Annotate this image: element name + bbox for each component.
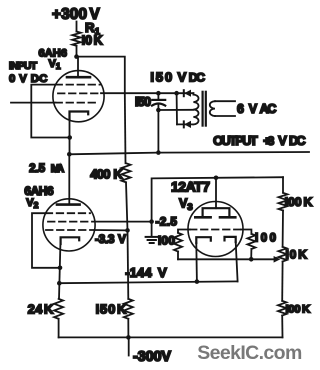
- wire V3 right grid lead: [241, 230, 251, 234]
- svg-text:A-C: A-C: [260, 102, 277, 116]
- svg-text:MA: MA: [51, 163, 65, 175]
- tube V1 grid 1 control (dashed): [56, 102, 98, 104]
- wire secondary leads: [215, 100, 235, 102]
- tube V2 envelope: [43, 199, 95, 251]
- tube V3 envelope: [188, 202, 243, 257]
- svg-text:D-C: D-C: [289, 133, 306, 148]
- wire lower 100K to bottom rail: [281, 316, 283, 338]
- wire 400K bottom to V2 grid junction: [126, 182, 128, 230]
- tube V1 envelope: [53, 71, 104, 122]
- wire bottom rail: [59, 336, 283, 338]
- tube V3 cathode right: [225, 237, 236, 242]
- wire V2 grid junction down to 150K: [127, 230, 130, 298]
- tube V3 cathode left: [196, 237, 211, 243]
- wire V2 screen to -2.5 node: [95, 221, 152, 223]
- transformer T1 primary winding: [193, 93, 198, 124]
- wire 150K bottom to bottom rail: [127, 319, 129, 338]
- wire rectifier common vertical: [176, 93, 178, 124]
- tube V2 grid 3 (dashed): [46, 212, 90, 214]
- svg-text:V: V: [249, 102, 258, 116]
- tube V2 cathode: [61, 237, 80, 244]
- svg-text:K: K: [302, 303, 311, 315]
- svg-text:I50: I50: [96, 302, 116, 317]
- svg-text:2.5: 2.5: [29, 162, 45, 175]
- svg-text:OUTPUT: OUTPUT: [213, 133, 258, 148]
- node V3 plate dot: [214, 176, 219, 181]
- wire between 100K and 10K pot: [282, 211, 284, 247]
- resistor 100 (right): [247, 234, 255, 249]
- wire V2 cathode leg: [59, 244, 60, 299]
- svg-text:INPUT: INPUT: [9, 60, 38, 72]
- wire V3 right cathode leg: [236, 242, 238, 281]
- svg-text:-300V: -300V: [133, 349, 171, 365]
- svg-text:400: 400: [90, 167, 110, 182]
- resistor 400K: [122, 163, 131, 182]
- svg-text:-2.5: -2.5: [156, 215, 178, 229]
- wire V3 left cathode leg: [195, 243, 198, 282]
- wire pot tap line: [178, 258, 276, 260]
- wire V2 plate lead (2.5 MA path): [68, 154, 70, 204]
- wire from +300V to R1: [76, 22, 78, 32]
- resistor 150K: [124, 299, 133, 319]
- svg-text:I0: I0: [286, 248, 297, 262]
- diode D2 (bottom): [183, 121, 185, 127]
- transformer T1 core: [202, 92, 204, 126]
- wire between pot and lower 100K: [281, 262, 283, 301]
- capacitor 150: top lead: [157, 93, 159, 99]
- node cap/output dot: [156, 150, 161, 155]
- resistor 100K (lower): [278, 301, 286, 316]
- tube V2 grid 1 control (dashed): [46, 229, 95, 231]
- node rectifier top dot: [174, 91, 179, 96]
- tube V3 plates assembly: [215, 178, 217, 208]
- node center-tap dot: [156, 108, 161, 113]
- wire V2 control grid to 400K line: [95, 229, 128, 231]
- svg-text:I50: I50: [135, 95, 151, 109]
- svg-text:D-C: D-C: [31, 73, 48, 85]
- wire input line to V1 control grid: [11, 102, 56, 104]
- wire bottom branch: [177, 123, 193, 125]
- node -2.5 dot: [149, 219, 154, 224]
- svg-text:24: 24: [28, 302, 43, 317]
- wire right 100 bottom: [250, 249, 252, 259]
- tube V1 grid 3 (dashed): [56, 84, 101, 86]
- svg-text:K: K: [298, 248, 307, 262]
- svg-text:I00: I00: [285, 195, 302, 209]
- svg-text:+3: +3: [263, 134, 274, 148]
- svg-text:6AH6: 6AH6: [24, 184, 54, 198]
- svg-text:6: 6: [237, 102, 244, 116]
- svg-text:V: V: [178, 70, 187, 85]
- svg-text:K: K: [117, 303, 126, 317]
- tube V3 grids (dashed): [190, 229, 241, 231]
- svg-text:K: K: [113, 167, 123, 182]
- resistor 100K (upper): [279, 193, 288, 211]
- svg-text:V: V: [158, 265, 167, 280]
- node V2 cathode/loop dot: [58, 266, 63, 271]
- wire center tap: [158, 109, 193, 111]
- wire V1 cathode leg: [69, 119, 71, 154]
- wire V1 suppressor-to-cathode loop: [31, 85, 69, 138]
- node output junction dot: [67, 152, 72, 157]
- node V2 cathode/-144 dot: [57, 281, 62, 286]
- tube V1 grid 2 screen (dashed): [58, 92, 101, 94]
- svg-text:-3.3: -3.3: [95, 232, 115, 246]
- svg-text:K: K: [304, 195, 313, 209]
- tube V2 grid 2 screen (dashed): [48, 221, 95, 223]
- svg-text:V: V: [19, 73, 27, 85]
- wire V2 suppressor-to-cathode loop: [32, 213, 60, 268]
- tube V1 cathode: [70, 112, 89, 120]
- diode D1 (top): [183, 90, 185, 96]
- wire right column top: [282, 177, 284, 193]
- svg-text:V: V: [118, 232, 126, 246]
- svg-text:D-C: D-C: [189, 71, 205, 85]
- node right 100/pot line dot: [249, 257, 254, 262]
- wire junction to screen dropper (top jog): [77, 57, 125, 94]
- wire left 100 bottom to pot line: [177, 252, 179, 260]
- resistor 100 (left): [174, 233, 182, 252]
- transformer T1 secondary winding: [210, 101, 215, 116]
- svg-text:+300: +300: [52, 6, 87, 23]
- tube V2 plate: [57, 203, 80, 206]
- capacitor bottom lead: [157, 104, 159, 152]
- resistor 10K (pot): [278, 247, 286, 262]
- svg-text:I0: I0: [82, 34, 92, 48]
- ground: [151, 222, 153, 237]
- svg-text:I00: I00: [158, 234, 175, 248]
- wire output line: [69, 152, 309, 154]
- svg-text:K: K: [44, 302, 54, 317]
- resistor 24K: [54, 299, 63, 319]
- tube V1 plate: [67, 76, 90, 79]
- svg-text:0: 0: [9, 73, 15, 85]
- svg-text:V: V: [278, 133, 287, 148]
- wire screen line node A (150 V D-C): [101, 92, 193, 94]
- node left leg/-144 dot: [195, 279, 200, 284]
- svg-text:I50: I50: [150, 70, 172, 85]
- svg-text:I00: I00: [255, 232, 276, 244]
- wire -144V rail: [59, 281, 237, 283]
- pot wiper arrow: [274, 256, 281, 263]
- svg-text:K: K: [94, 34, 103, 48]
- svg-text:-144: -144: [125, 265, 152, 280]
- svg-text:12AT7: 12AT7: [171, 178, 210, 194]
- wire vertical B+ dropper down to 400K: [124, 93, 127, 163]
- wire -300V stub: [128, 337, 130, 355]
- node cathode/loop dot: [67, 135, 72, 140]
- node V2 grid junction dot: [125, 228, 130, 233]
- wire R1 bottom to junction: [76, 46, 78, 57]
- resistor R1: [72, 32, 80, 46]
- wire V3 left grid lead: [178, 230, 190, 233]
- node R1/plate junction dot: [74, 54, 79, 59]
- capacitor 150 plates: [152, 99, 165, 101]
- node cap top dot: [156, 91, 161, 96]
- svg-text:SeekIC.com: SeekIC.com: [197, 342, 302, 364]
- svg-text:I00: I00: [286, 303, 301, 315]
- wire box-left vertical: [152, 177, 283, 221]
- wire 24K bottom to bottom rail: [58, 319, 60, 338]
- node 150K/bottom rail dot: [126, 335, 131, 340]
